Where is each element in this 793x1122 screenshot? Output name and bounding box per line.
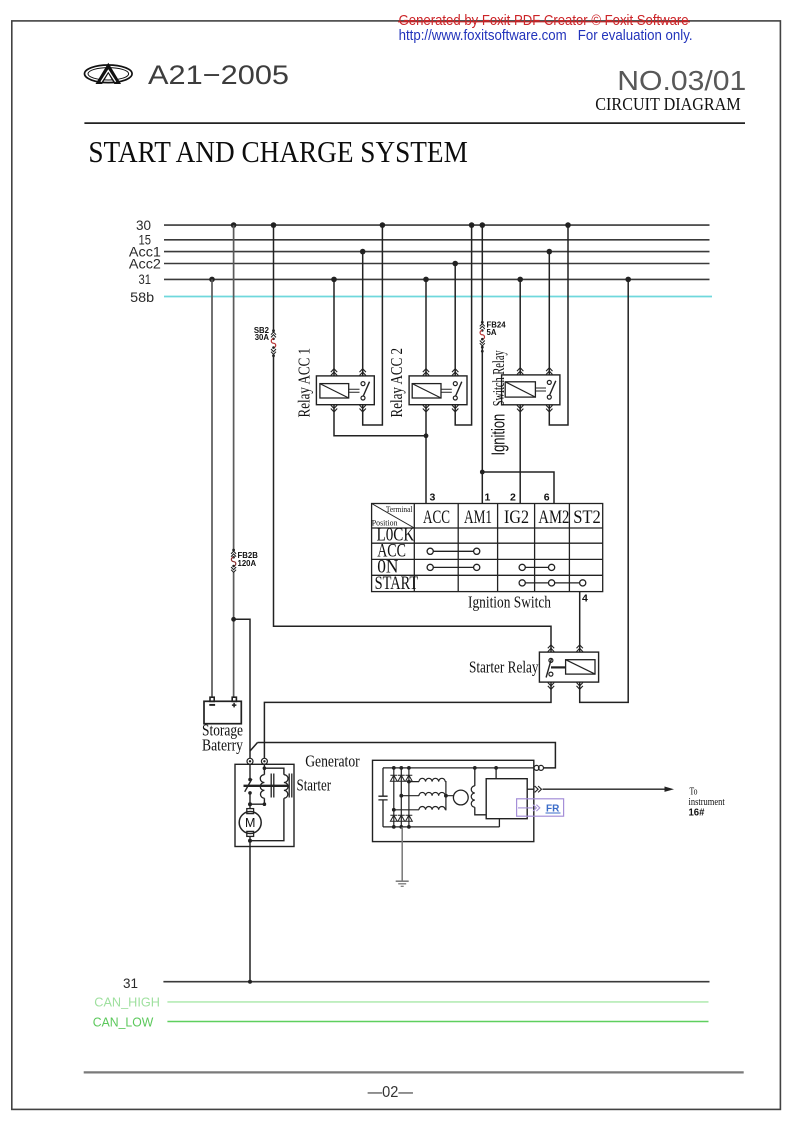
ignition switch table xyxy=(372,504,603,592)
fuse SB2 30A xyxy=(254,326,276,357)
solenoid contact xyxy=(249,764,251,779)
svg-text:120A: 120A xyxy=(238,559,257,568)
storage battery xyxy=(204,697,241,724)
starter relay xyxy=(539,652,598,682)
junction dots on bus 30 xyxy=(209,222,631,282)
svg-text:2: 2 xyxy=(510,492,516,504)
table column headers xyxy=(423,507,601,528)
wire FB24 feed from bus 30 xyxy=(481,225,483,322)
svg-text:5A: 5A xyxy=(487,328,497,337)
regulator xyxy=(486,768,534,827)
svg-text:IG2: IG2 xyxy=(504,507,529,528)
svg-text:CIRCUIT DIAGRAM: CIRCUIT DIAGRAM xyxy=(595,94,740,114)
wire branch to AM2 terminal xyxy=(482,472,554,504)
motor brush xyxy=(247,809,254,814)
generator internal bottom bus xyxy=(383,826,499,828)
svg-text:3: 3 xyxy=(430,492,436,504)
table row labels xyxy=(375,525,419,595)
svg-text:Acc2: Acc2 xyxy=(129,255,161,271)
junction dots on bus 31 xyxy=(209,277,215,283)
generator assembly xyxy=(373,760,534,841)
table contact circles ACC row xyxy=(427,548,586,586)
svg-text:ACC: ACC xyxy=(423,507,450,528)
fuse FB2B 120A xyxy=(231,549,258,573)
svg-text:START AND CHARGE SYSTEM: START AND CHARGE SYSTEM xyxy=(88,134,467,169)
wire relay ACC2 contact top from bus Acc2 xyxy=(454,264,456,376)
wire relay ACC2 coil top from bus 31 xyxy=(425,279,427,376)
junction dots on bus Acc2 xyxy=(452,261,458,267)
bus line 31 xyxy=(164,278,710,280)
table contact circles 0N row xyxy=(427,564,433,570)
svg-text:Ignition Switch: Ignition Switch xyxy=(468,593,551,612)
output to instrument xyxy=(535,786,542,792)
wire ignition switch relay contact top from bus Acc1 xyxy=(548,252,550,375)
wire relay ACC1 coil top from bus 31 xyxy=(333,279,335,376)
junction dots on bus Acc1 xyxy=(360,249,366,255)
wire relay ACC2 coil bottom to ignition switch ACC terminal xyxy=(425,405,427,504)
generator junction dots xyxy=(392,766,498,829)
wire relay ACC1 contact bottom to bus 30 xyxy=(363,225,383,425)
svg-text:30A: 30A xyxy=(255,333,270,342)
svg-text:4: 4 xyxy=(582,593,588,605)
bus line 15 xyxy=(164,239,710,241)
svg-text:NO.03/01: NO.03/01 xyxy=(617,65,746,96)
ground xyxy=(396,827,409,886)
capacitor xyxy=(378,768,387,827)
wire starter relay contact out to starter solenoid xyxy=(264,682,551,758)
wire FB24 to ignition switch AM1 terminal xyxy=(481,346,483,504)
ignition switch relay U3 xyxy=(502,375,560,405)
FR monitor tap xyxy=(517,799,564,816)
svg-text:CAN_HIGH: CAN_HIGH xyxy=(94,995,160,1010)
rectifier diodes top xyxy=(390,775,412,821)
svg-text:M: M xyxy=(245,816,255,830)
table contact circles START row xyxy=(519,580,525,586)
starter connector pins xyxy=(247,758,267,764)
wire ignition switch relay coil bottom to IG2 terminal xyxy=(519,405,521,504)
wire starter motor to bottom bus 31 xyxy=(249,847,251,982)
wire relay ACC2 contact bottom to bus 30 xyxy=(455,225,471,425)
svg-text:Switch Relay: Switch Relay xyxy=(489,350,508,406)
generator internal top bus xyxy=(383,767,534,769)
header rule xyxy=(84,122,745,124)
footer rule xyxy=(84,1071,744,1073)
wire bus 31 to starter relay coil return xyxy=(580,279,629,702)
rectifier diode columns xyxy=(394,768,409,827)
bus line 30 xyxy=(164,224,710,226)
relay ACC1 xyxy=(316,376,374,405)
star point xyxy=(445,782,453,810)
svg-text:58b: 58b xyxy=(130,289,154,305)
rectifier diodes bottom xyxy=(390,815,397,821)
svg-text:Starter: Starter xyxy=(297,776,332,795)
svg-text:31: 31 xyxy=(123,975,138,991)
wire ST2 terminal to starter relay coil xyxy=(579,592,581,653)
starter assembly xyxy=(235,764,294,846)
svg-text:Relay ACC 2: Relay ACC 2 xyxy=(387,348,406,418)
bus line 58b (cyan) xyxy=(164,296,712,298)
wire relay ACC1 contact top from bus Acc1 xyxy=(362,252,364,376)
wire SB2 to starter relay contact xyxy=(274,355,552,653)
wire branch battery+ to starter B terminal xyxy=(234,619,250,758)
svg-text:Ignition: Ignition xyxy=(489,414,509,456)
svg-text:AM2: AM2 xyxy=(538,507,569,528)
bus line Acc2 xyxy=(164,263,710,265)
wire diagonal tap to generator feed xyxy=(250,743,258,752)
svg-text:—02—: —02— xyxy=(368,1084,413,1101)
svg-text:CAN_LOW: CAN_LOW xyxy=(93,1015,154,1030)
svg-text:START: START xyxy=(375,573,419,594)
wire ignition switch relay coil top from bus 31 xyxy=(519,279,521,375)
svg-text:Baterry: Baterry xyxy=(202,736,244,755)
svg-text:31: 31 xyxy=(139,271,152,287)
fuse FB24 5A xyxy=(480,321,506,353)
field winding xyxy=(471,768,486,815)
svg-text:6: 6 xyxy=(544,492,550,504)
wire relay ACC1 coil bottom to node A xyxy=(334,405,426,436)
wire battery plus from bus 30 (through fuse FB2B) xyxy=(233,225,235,550)
rotor xyxy=(453,790,468,805)
terminal pin numbers xyxy=(430,492,589,605)
svg-text:ST2: ST2 xyxy=(573,507,601,528)
node A junction dots xyxy=(231,617,236,622)
svg-text:Starter Relay: Starter Relay xyxy=(469,658,539,677)
stator windings xyxy=(394,778,454,809)
wire battery minus from bus 31 xyxy=(211,279,213,697)
bus line Acc1 xyxy=(164,251,710,253)
svg-text:A21−2005: A21−2005 xyxy=(148,60,289,90)
svg-text:30: 30 xyxy=(136,217,151,233)
wire generator B+ feed xyxy=(258,743,556,768)
svg-text:1: 1 xyxy=(485,492,491,504)
relay ACC2 xyxy=(409,376,467,405)
wire SB2 feed from bus 30 xyxy=(273,225,275,330)
wire ignition switch relay contact bottom to bus 30 xyxy=(549,225,568,425)
motor M xyxy=(239,812,261,834)
svg-text:http://www.foxitsoftware.com: http://www.foxitsoftware.com For evaluat… xyxy=(399,28,693,44)
Chery logo xyxy=(85,63,133,84)
svg-text:AM1: AM1 xyxy=(464,507,492,528)
svg-text:Terminal: Terminal xyxy=(386,504,413,514)
svg-text:Relay ACC 1: Relay ACC 1 xyxy=(295,348,314,418)
solenoid windings xyxy=(263,764,265,774)
generator B+ connector xyxy=(534,765,543,770)
svg-text:Generator: Generator xyxy=(305,752,360,771)
svg-text:16#: 16# xyxy=(689,807,705,819)
